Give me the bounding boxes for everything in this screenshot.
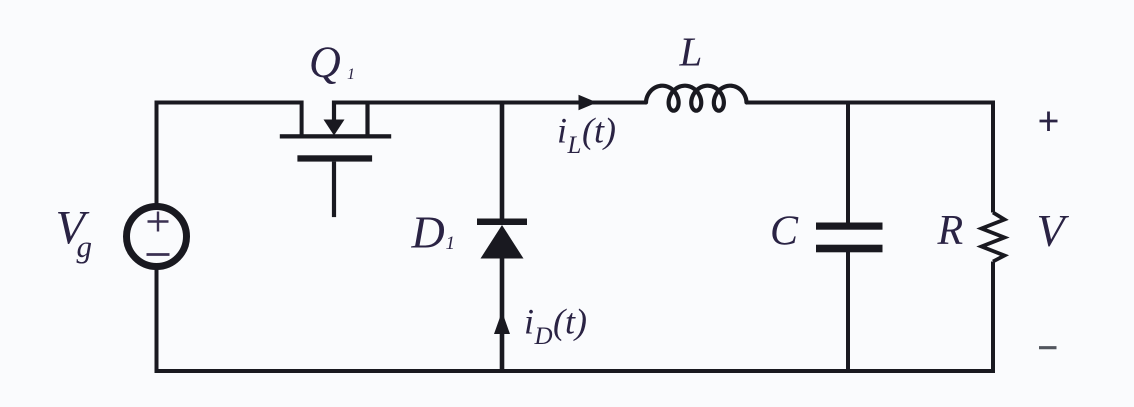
svg-text:i: i [557,111,567,151]
wire: resistor lower lead [991,262,995,372]
inductor L coil [646,86,746,111]
voltage source minus mark [147,253,170,256]
arrow iD on diode lower lead [494,312,510,335]
svg-text:Q: Q [309,38,341,87]
wire: capacitor upper lead [846,103,850,227]
resistor R zigzag body [982,213,1005,262]
Q1 arrow stem and head [332,101,336,123]
svg-text:V: V [1037,205,1070,256]
voltage source plus mark [148,212,169,232]
svg-text:1: 1 [446,233,456,254]
C top plate [816,223,883,230]
Q1 gate bar [297,155,372,161]
svg-text:D: D [411,207,445,258]
wire: top rail from MOSFET arrow stem to inductor start [333,101,647,105]
svg-text:i: i [524,302,534,342]
Q1 channel bar [280,134,391,138]
Q1 source vertical [365,101,369,136]
svg-text:L: L [679,29,703,75]
svg-text:D: D [534,323,553,350]
D1 anode triangle [481,225,524,259]
wire: Vg bottom lead [155,269,159,371]
svg-text:(t): (t) [553,302,587,342]
C bottom plate [816,245,883,253]
transistor Q1 (MOSFET) [280,101,391,218]
wire: diode branch lower lead [500,256,505,371]
wire: capacitor lower lead [846,249,850,371]
diode D1 [477,219,527,259]
svg-text:(t): (t) [582,111,616,151]
wire: diode branch upper lead [500,103,505,222]
wire: resistor upper lead [991,103,995,213]
svg-text:R: R [937,208,964,254]
output plus terminal [1040,112,1058,132]
arrow iL on top rail [579,95,598,110]
output minus terminal [1039,346,1057,349]
D1 cathode bar [477,219,527,226]
svg-text:1: 1 [347,66,355,83]
wire: bottom rail [155,369,996,373]
svg-text:L: L [567,132,582,159]
wire: top rail from inductor end to resistor corner [747,101,995,105]
voltage source Vg circle [127,207,187,267]
Q1 gate lead [332,162,336,218]
svg-text:g: g [77,229,93,264]
svg-text:C: C [770,209,799,255]
capacitor C [816,223,883,253]
wire: top-left rail from Vg up and over to MOSFET drain [157,103,302,205]
